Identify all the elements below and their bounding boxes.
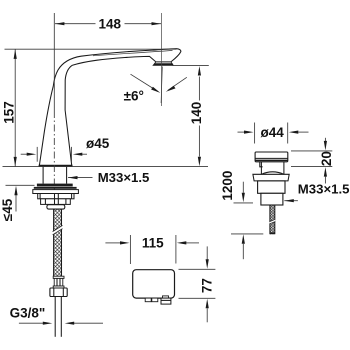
box connector <box>163 296 169 298</box>
label M33x1.5 right <box>284 200 298 202</box>
connection pipe G3/8 <box>54 297 56 337</box>
hose coupling nut <box>47 205 65 209</box>
valve neck <box>260 162 262 175</box>
mounting plate <box>33 190 79 194</box>
faucet spout tip nose <box>171 49 181 62</box>
faucet neck inner curve <box>65 65 72 165</box>
svg-text:≤45: ≤45 <box>0 198 15 221</box>
aerator <box>153 62 173 65</box>
valve lower body <box>261 193 283 205</box>
centerline body (dash-dot) <box>53 13 55 111</box>
washer dark 1 <box>37 184 73 187</box>
hose end band2 <box>53 286 64 288</box>
dimension 77 <box>179 268 216 270</box>
dimension 157 <box>5 48 177 50</box>
svg-text:157: 157 <box>1 101 16 124</box>
angle leaders ±6° <box>131 74 159 91</box>
svg-text:77: 77 <box>199 278 214 293</box>
svg-text:140: 140 <box>189 102 204 125</box>
dimension ø44 <box>254 123 256 144</box>
dimension 20 <box>291 150 332 152</box>
dimension <=45 <box>6 184 35 186</box>
svg-text:M33×1.5: M33×1.5 <box>98 170 150 185</box>
faucet neck outer curve <box>39 56 81 165</box>
faucet shank <box>42 167 44 184</box>
faucet spout inner top line <box>93 50 173 55</box>
dimension 140 <box>172 64 209 66</box>
hose end crimp band <box>53 276 64 278</box>
control box <box>133 270 175 298</box>
svg-text:148: 148 <box>99 17 122 32</box>
svg-text:1200: 1200 <box>220 171 235 201</box>
hose break <box>53 225 63 234</box>
lower block <box>41 199 71 205</box>
faucet spout bottom edge <box>72 56 170 65</box>
block under plate <box>38 194 74 199</box>
svg-text:ø44: ø44 <box>261 125 285 140</box>
braided hose <box>53 209 63 276</box>
valve body <box>258 181 285 193</box>
water stream lines <box>161 67 162 104</box>
svg-text:20: 20 <box>319 151 334 166</box>
extension line right of 148 <box>161 13 163 106</box>
dimension 148 <box>55 23 96 25</box>
box foot 1 <box>145 298 151 302</box>
box foot 2 <box>152 298 158 302</box>
hose end nut <box>50 288 67 297</box>
svg-text:ø45: ø45 <box>86 136 110 151</box>
center rod <box>54 194 56 205</box>
svg-text:M33×1.5: M33×1.5 <box>298 182 350 197</box>
svg-text:115: 115 <box>142 236 164 251</box>
valve cap <box>255 152 288 162</box>
svg-text:G3/8": G3/8" <box>10 306 46 321</box>
dimension ø45 <box>36 147 38 162</box>
washer dark 2 <box>34 187 77 189</box>
valve threaded rod <box>269 205 275 234</box>
hose end sleeve <box>54 278 63 286</box>
valve clip <box>260 162 263 167</box>
dimension 1200 <box>242 182 244 193</box>
dimension 115 <box>129 235 131 264</box>
deck line <box>3 166 209 168</box>
label M33x1.5 left <box>68 177 93 179</box>
valve escutcheon <box>253 174 289 181</box>
faucet base bold line <box>39 165 73 167</box>
faucet spout top edge <box>81 49 177 57</box>
svg-text:±6°: ±6° <box>124 89 144 104</box>
